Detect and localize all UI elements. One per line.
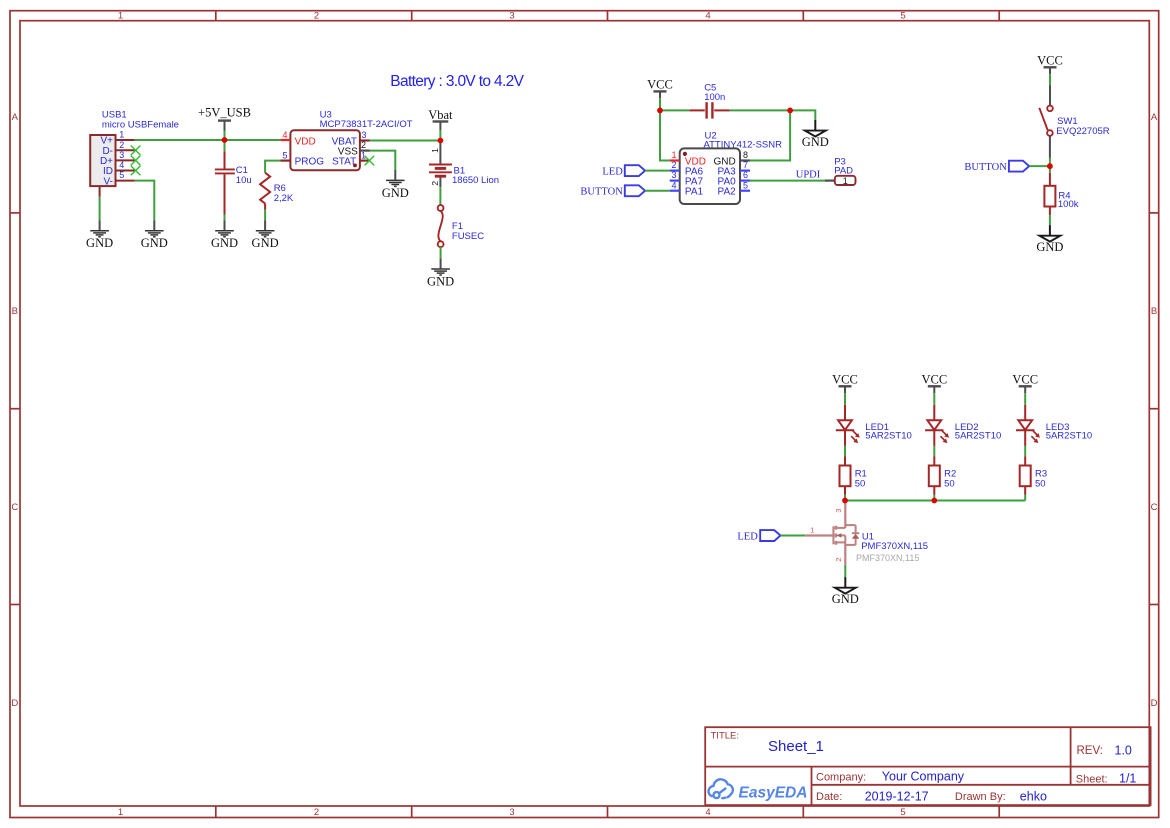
- svg-text:PA1: PA1: [685, 187, 704, 198]
- U2 pin 1: [670, 150, 680, 160]
- capacitor C5 100n: [689, 82, 729, 118]
- svg-text:2: 2: [314, 11, 319, 22]
- wire +5V flag to node: [224, 131, 226, 141]
- USB1 pin 2: [116, 140, 135, 150]
- no-connect flag pin 4: [131, 166, 141, 176]
- junction BUTTON node: [1047, 163, 1053, 169]
- svg-text:TITLE:: TITLE:: [711, 731, 740, 742]
- EasyEDA logo: [708, 779, 732, 798]
- wire LED1 to R1: [844, 446, 846, 456]
- svg-text:Company:: Company:: [816, 771, 866, 783]
- svg-text:5AR2ST10: 5AR2ST10: [1046, 430, 1092, 441]
- wire F1 to GND: [440, 247, 442, 259]
- power flag VCC (LED1): [832, 373, 858, 394]
- svg-text:4: 4: [671, 180, 676, 190]
- wire USB1 pin5 to GND: [135, 181, 155, 221]
- junction LED drain node 2: [931, 498, 937, 504]
- junction LED drain node 1: [842, 498, 848, 504]
- svg-text:1: 1: [430, 148, 440, 153]
- svg-text:Battery : 3.0V to 4.2V: Battery : 3.0V to 4.2V: [390, 73, 524, 90]
- power flag Vbat: [428, 108, 453, 130]
- no-connect flag U3 STAT: [365, 156, 375, 166]
- U2 pin 4: [670, 180, 680, 190]
- svg-text:5: 5: [119, 170, 124, 180]
- svg-text:5: 5: [282, 150, 287, 160]
- resistor R3 50: [1020, 456, 1047, 494]
- wire U3 VSS to GND: [370, 151, 395, 170]
- resistor R2 50: [929, 456, 956, 494]
- svg-text:3: 3: [361, 130, 366, 140]
- wire U2 GND pin to node: [750, 110, 790, 160]
- U2 pin 2: [670, 160, 680, 170]
- LED3 5AR2ST10: [1016, 405, 1092, 446]
- power flag VCC (LED3): [1012, 373, 1038, 394]
- wire R2 to node: [933, 495, 935, 501]
- wire BUTTON flag to U2 PA1: [645, 190, 670, 192]
- resistor R6 2,2K (zigzag): [260, 173, 294, 210]
- svg-text:Date:: Date:: [816, 791, 842, 803]
- svg-text:8: 8: [743, 150, 748, 160]
- wire LED3 to R3: [1024, 446, 1026, 456]
- svg-text:micro USBFemale: micro USBFemale: [102, 119, 179, 130]
- U2 pin 3: [670, 170, 680, 180]
- svg-text:1: 1: [118, 807, 123, 818]
- wire C1 to GND: [224, 215, 226, 221]
- svg-text:V-: V-: [104, 176, 113, 187]
- svg-text:3: 3: [509, 11, 514, 22]
- svg-text:3: 3: [671, 170, 676, 180]
- capacitor C1 10u: [215, 151, 252, 214]
- USB1 pin 3: [116, 150, 135, 160]
- ground: [427, 259, 454, 289]
- svg-text:FUSEC: FUSEC: [452, 231, 484, 242]
- svg-text:B: B: [12, 306, 18, 317]
- ground: [86, 220, 113, 250]
- svg-text:EVQ22705R: EVQ22705R: [1056, 126, 1109, 137]
- svg-text:2: 2: [361, 140, 366, 150]
- wire SW1 to BUTTON node: [1049, 158, 1051, 166]
- svg-text:LED: LED: [737, 531, 758, 542]
- USB1 pin 4: [116, 160, 135, 170]
- wire node to GND flag: [790, 110, 815, 120]
- wire VCC to LED3: [1024, 393, 1026, 405]
- power flag VCC (U2): [647, 78, 673, 99]
- U2 pin 6: [740, 170, 750, 180]
- wire U3 VBAT to Vbat node: [370, 140, 441, 142]
- USB1 pin 5: [116, 170, 135, 180]
- svg-text:Sheet:: Sheet:: [1076, 773, 1108, 785]
- svg-text:2: 2: [834, 557, 843, 561]
- U3 pin 2: [360, 140, 370, 150]
- USB1 pin 1: [116, 130, 135, 140]
- wire BUTTON flag to node: [1029, 165, 1050, 167]
- svg-text:REV:: REV:: [1077, 745, 1103, 757]
- svg-text:50: 50: [944, 479, 955, 490]
- no-connect flag pin 3: [131, 156, 141, 166]
- ground: [382, 170, 409, 200]
- wire LED flag to U1 gate: [781, 535, 806, 537]
- wire Vbat flag to node: [439, 130, 441, 141]
- op-amp U3 MCP73831T-2ACI/OT charger IC: [290, 109, 412, 170]
- ground (triangle style): [1036, 225, 1063, 254]
- svg-text:2: 2: [314, 807, 319, 818]
- svg-text:PA2: PA2: [718, 187, 737, 198]
- wire +5V net: USB1 pin1 to U3 VDD: [135, 139, 281, 141]
- transistor U2 ATTINY412-SSNR: [680, 131, 782, 204]
- resistor R4 100k: [1044, 173, 1078, 215]
- svg-text:4: 4: [705, 807, 710, 818]
- title block: [705, 727, 1150, 805]
- svg-text:5AR2ST10: 5AR2ST10: [865, 430, 911, 441]
- svg-text:A: A: [12, 112, 19, 123]
- svg-text:MCP73831T-2ACI/OT: MCP73831T-2ACI/OT: [320, 119, 413, 130]
- net flag BUTTON (SW1): [964, 161, 1029, 173]
- svg-text:BUTTON: BUTTON: [964, 162, 1007, 173]
- switch SW1 EVQ22705R: [1039, 86, 1109, 158]
- wire C5 to GND node: [730, 109, 791, 111]
- svg-text:2: 2: [430, 181, 440, 186]
- wire R1 to drain node: [844, 495, 846, 501]
- svg-text:2019-12-17: 2019-12-17: [865, 790, 929, 804]
- wire U1 source to GND: [844, 565, 846, 577]
- svg-text:100n: 100n: [704, 92, 725, 103]
- power flag VCC (LED2): [921, 373, 947, 394]
- svg-text:Vbat: Vbat: [428, 108, 453, 122]
- svg-text:VDD: VDD: [295, 136, 316, 147]
- wire VCC to LED2: [933, 393, 935, 405]
- svg-text:3: 3: [834, 509, 843, 513]
- junction VCC/C5 node: [657, 108, 663, 114]
- battery B1 18650 Lion: [429, 141, 499, 188]
- svg-text:PROG: PROG: [295, 157, 325, 168]
- transistor U1 PMF370XN,115 (highlighted): [805, 501, 928, 565]
- net flag LED (U1 gate): [737, 530, 780, 542]
- ground: [252, 220, 279, 250]
- svg-text:A: A: [1151, 112, 1158, 123]
- svg-text:1: 1: [118, 11, 123, 22]
- svg-text:4: 4: [282, 130, 287, 140]
- svg-text:1: 1: [843, 176, 848, 186]
- U3 pin 1: [360, 150, 370, 160]
- wire node to C5: [660, 109, 689, 111]
- net flag LED (U2): [602, 165, 645, 177]
- svg-text:10u: 10u: [236, 175, 252, 186]
- svg-text:STAT: STAT: [332, 157, 356, 168]
- wire U3 PROG to R6: [265, 161, 280, 173]
- svg-text:1: 1: [119, 130, 124, 140]
- svg-text:5: 5: [743, 180, 748, 190]
- svg-text:Your Company: Your Company: [882, 770, 965, 784]
- svg-text:2: 2: [119, 140, 124, 150]
- U2 pin 5: [740, 180, 750, 190]
- svg-text:3: 3: [509, 807, 514, 818]
- svg-text:1.0: 1.0: [1115, 743, 1132, 757]
- junction +5V node: [222, 137, 228, 143]
- U3 pin 3: [360, 130, 370, 141]
- svg-text:5: 5: [900, 11, 905, 22]
- ground (triangle style): [802, 120, 829, 149]
- wire U2 PA0 to P3, net UPDI: [750, 180, 825, 182]
- wire R3 to node: [1024, 495, 1026, 501]
- svg-text:1/1: 1/1: [1119, 772, 1136, 786]
- svg-text:BUTTON: BUTTON: [580, 187, 623, 198]
- ground: [141, 220, 168, 250]
- resistor R1 50: [840, 456, 867, 494]
- svg-text:+5V_USB: +5V_USB: [198, 106, 251, 120]
- net flag BUTTON (U2): [580, 185, 645, 197]
- fuse F1 FUSEC: [438, 205, 485, 247]
- wire VCC to SW1: [1049, 74, 1051, 85]
- power flag +5V_USB: [198, 106, 251, 131]
- svg-text:PMF370XN,115: PMF370XN,115: [861, 541, 928, 552]
- wire drain bus: [845, 500, 1025, 502]
- wire node to C1: [224, 140, 226, 151]
- svg-text:D: D: [11, 698, 18, 709]
- U1 pin 2 source: [844, 542, 846, 564]
- svg-text:6: 6: [743, 170, 748, 180]
- wire R4 to GND: [1049, 215, 1051, 225]
- wire R6 to GND: [264, 210, 266, 221]
- USB1 shield pin: [99, 186, 101, 197]
- U1 pin 3 drain: [844, 501, 846, 529]
- ground (triangle style): [832, 577, 859, 606]
- U1 pin 1 gate lead: [805, 534, 833, 536]
- wire B1 to F1: [439, 187, 441, 205]
- wire VCC node down to U2 VDD: [660, 110, 670, 160]
- svg-text:PAD: PAD: [834, 165, 853, 176]
- svg-text:7: 7: [743, 160, 748, 170]
- svg-text:5AR2ST10: 5AR2ST10: [955, 430, 1001, 441]
- power flag VCC (SW1): [1037, 54, 1063, 75]
- svg-text:C: C: [1151, 502, 1158, 513]
- svg-text:18650 Lion: 18650 Lion: [452, 175, 499, 186]
- svg-text:1: 1: [810, 526, 814, 535]
- U1 body: [832, 526, 834, 544]
- LED1 5AR2ST10: [836, 405, 912, 446]
- U2 pin 8: [740, 150, 750, 160]
- U3 pin 4: [280, 130, 290, 140]
- junction Vbat node: [438, 138, 444, 144]
- U2 pin 7: [740, 160, 750, 170]
- wire VCC to node: [659, 98, 661, 110]
- svg-text:1: 1: [361, 150, 366, 160]
- U3 pin 5: [280, 150, 290, 160]
- connector P3 PAD: [825, 156, 856, 186]
- svg-text:Drawn By:: Drawn By:: [955, 791, 1006, 803]
- svg-text:3: 3: [119, 150, 124, 160]
- LED2 5AR2ST10: [925, 405, 1001, 446]
- svg-text:50: 50: [855, 479, 866, 490]
- svg-text:Sheet_1: Sheet_1: [768, 738, 824, 755]
- ground: [211, 220, 238, 250]
- no-connect flag pin 2: [131, 146, 141, 156]
- svg-text:2: 2: [671, 160, 676, 170]
- svg-text:2,2K: 2,2K: [274, 193, 294, 204]
- connector USB1 micro USBFemale: [90, 110, 179, 188]
- wire VCC to LED1: [844, 393, 846, 405]
- svg-text:PMF370XN,115: PMF370XN,115: [856, 553, 919, 563]
- svg-text:ehko: ehko: [1020, 790, 1047, 804]
- wire LED2 to R2: [933, 446, 935, 456]
- svg-text:1: 1: [671, 150, 676, 160]
- svg-text:100k: 100k: [1058, 199, 1079, 210]
- svg-text:50: 50: [1035, 479, 1046, 490]
- wire node to R4: [1049, 166, 1051, 173]
- svg-text:D: D: [1151, 698, 1158, 709]
- svg-text:C: C: [11, 502, 18, 513]
- svg-text:UPDI: UPDI: [796, 169, 821, 180]
- junction C5/GND node: [787, 108, 793, 114]
- svg-text:EasyEDA: EasyEDA: [739, 785, 808, 802]
- wire USB1 shield to GND: [99, 197, 101, 221]
- svg-text:4: 4: [705, 11, 710, 22]
- svg-text:4: 4: [119, 160, 124, 170]
- wire LED flag to U2 PA6: [645, 170, 670, 172]
- svg-text:5: 5: [900, 807, 905, 818]
- svg-text:LED: LED: [602, 167, 623, 178]
- svg-text:B: B: [1151, 306, 1157, 317]
